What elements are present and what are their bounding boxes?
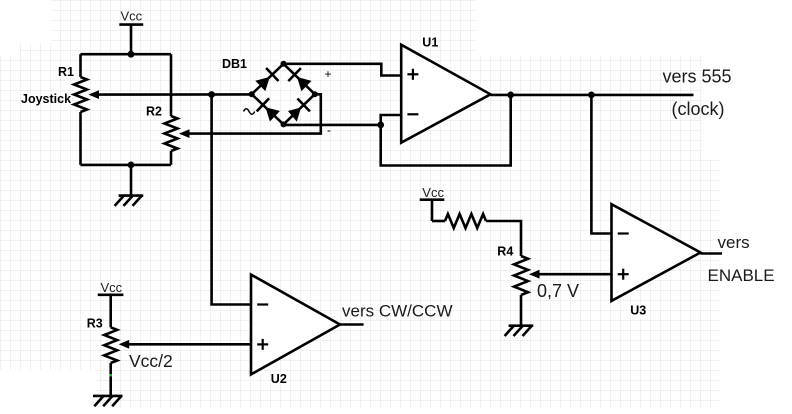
resistor R1 (joystick pot)	[74, 54, 87, 165]
diode D2 (AC2 to +)	[288, 68, 311, 91]
node wiper junction A	[208, 91, 215, 98]
resistor R2	[165, 54, 178, 165]
op-amp U2	[251, 275, 340, 375]
AC squiggle	[244, 109, 255, 115]
bridge edge top-right	[284, 64, 315, 94]
power Vcc (divider)	[119, 25, 143, 55]
wire R4 to pot	[486, 221, 521, 256]
svg-text:DB1: DB1	[222, 57, 247, 71]
wire junction to U1 inverting input	[381, 115, 402, 125]
node U1 output feedback	[507, 92, 514, 99]
wiper arrow R4 pot	[529, 270, 540, 279]
wire feedback (junction to U1 output)	[381, 95, 511, 166]
net highlight dot (green)	[110, 374, 112, 376]
svg-text:+: +	[325, 67, 332, 81]
svg-text:0,7 V: 0,7 V	[537, 281, 579, 301]
node bridge left	[249, 91, 255, 97]
svg-text:Vcc: Vcc	[101, 280, 123, 295]
diode bridge DB1	[244, 61, 318, 128]
potentiometer (0,7V divider)	[514, 256, 528, 295]
node divider top	[128, 51, 135, 58]
svg-text:vers: vers	[718, 233, 750, 252]
svg-text:vers CW/CCW: vers CW/CCW	[342, 302, 452, 321]
node U1 inverting junction	[377, 122, 384, 129]
wire R3 wiper to U2 non-inverting input	[127, 343, 251, 346]
op-amp U3	[612, 204, 701, 301]
wire pot wiper to U3 non-inverting input	[538, 273, 612, 276]
svg-text:U3: U3	[630, 304, 646, 318]
wiper arrow R2	[179, 129, 190, 138]
svg-text:R3: R3	[87, 316, 103, 330]
wire R1 wiper to bridge AC1	[97, 93, 252, 96]
svg-text:Vcc: Vcc	[422, 185, 444, 200]
wire bridge plus output to U1	[284, 64, 402, 76]
bridge edge bottom-right	[284, 94, 315, 124]
resistor R4 (series)	[445, 214, 486, 228]
wiper arrow R3	[119, 340, 130, 349]
wire R3 to ground	[109, 363, 112, 396]
wiper arrow R1	[89, 90, 100, 99]
wire U2 output	[340, 323, 364, 326]
svg-text:Joystick: Joystick	[21, 92, 71, 106]
wire wiper junction to U2 inverting input	[212, 95, 251, 305]
resistor R3 (Vcc/2 pot)	[104, 327, 117, 363]
op-amp U1	[401, 45, 490, 143]
diode D1 (AC1 to +)	[255, 68, 278, 91]
svg-text:-: -	[327, 123, 331, 137]
node bridge right	[312, 91, 318, 97]
node output to U3 branch	[588, 92, 595, 99]
bridge edge left-top	[252, 64, 284, 94]
power Vcc (R3)	[98, 295, 124, 328]
diode D3 (- to AC1)	[257, 98, 280, 121]
bridge edge bottom-left	[252, 94, 284, 124]
wire bottom rail	[81, 164, 172, 167]
wire top rail	[81, 53, 172, 56]
power Vcc (R4)	[420, 200, 445, 221]
svg-text:R4: R4	[497, 245, 513, 259]
ground (R4 pot)	[505, 326, 534, 336]
wire U3 output	[701, 252, 723, 255]
svg-text:Vcc: Vcc	[121, 9, 143, 24]
node bridge bottom	[281, 121, 287, 127]
wire branch to U3 inverting input	[591, 95, 611, 234]
node bridge top	[281, 61, 287, 67]
ground (R3 pot)	[93, 396, 123, 406]
svg-text:R1: R1	[58, 65, 74, 79]
node divider bottom	[128, 162, 135, 169]
diode D4 (- to AC2)	[288, 99, 310, 122]
wire R2 wiper to bridge AC2	[188, 94, 321, 133]
wire Vcc to R4	[432, 220, 445, 223]
svg-text:Vcc/2: Vcc/2	[129, 351, 173, 371]
svg-text:vers 555: vers 555	[663, 67, 732, 87]
wire bridge minus output to U1	[284, 124, 381, 127]
svg-text:U2: U2	[271, 372, 287, 386]
svg-text:ENABLE: ENABLE	[708, 266, 775, 285]
svg-text:(clock): (clock)	[672, 99, 725, 119]
wire pot to ground	[520, 295, 523, 326]
wire U1 output to vers 555	[491, 94, 694, 97]
svg-text:R2: R2	[146, 105, 162, 119]
ground (joystick divider)	[115, 165, 144, 206]
svg-text:U1: U1	[422, 35, 438, 49]
